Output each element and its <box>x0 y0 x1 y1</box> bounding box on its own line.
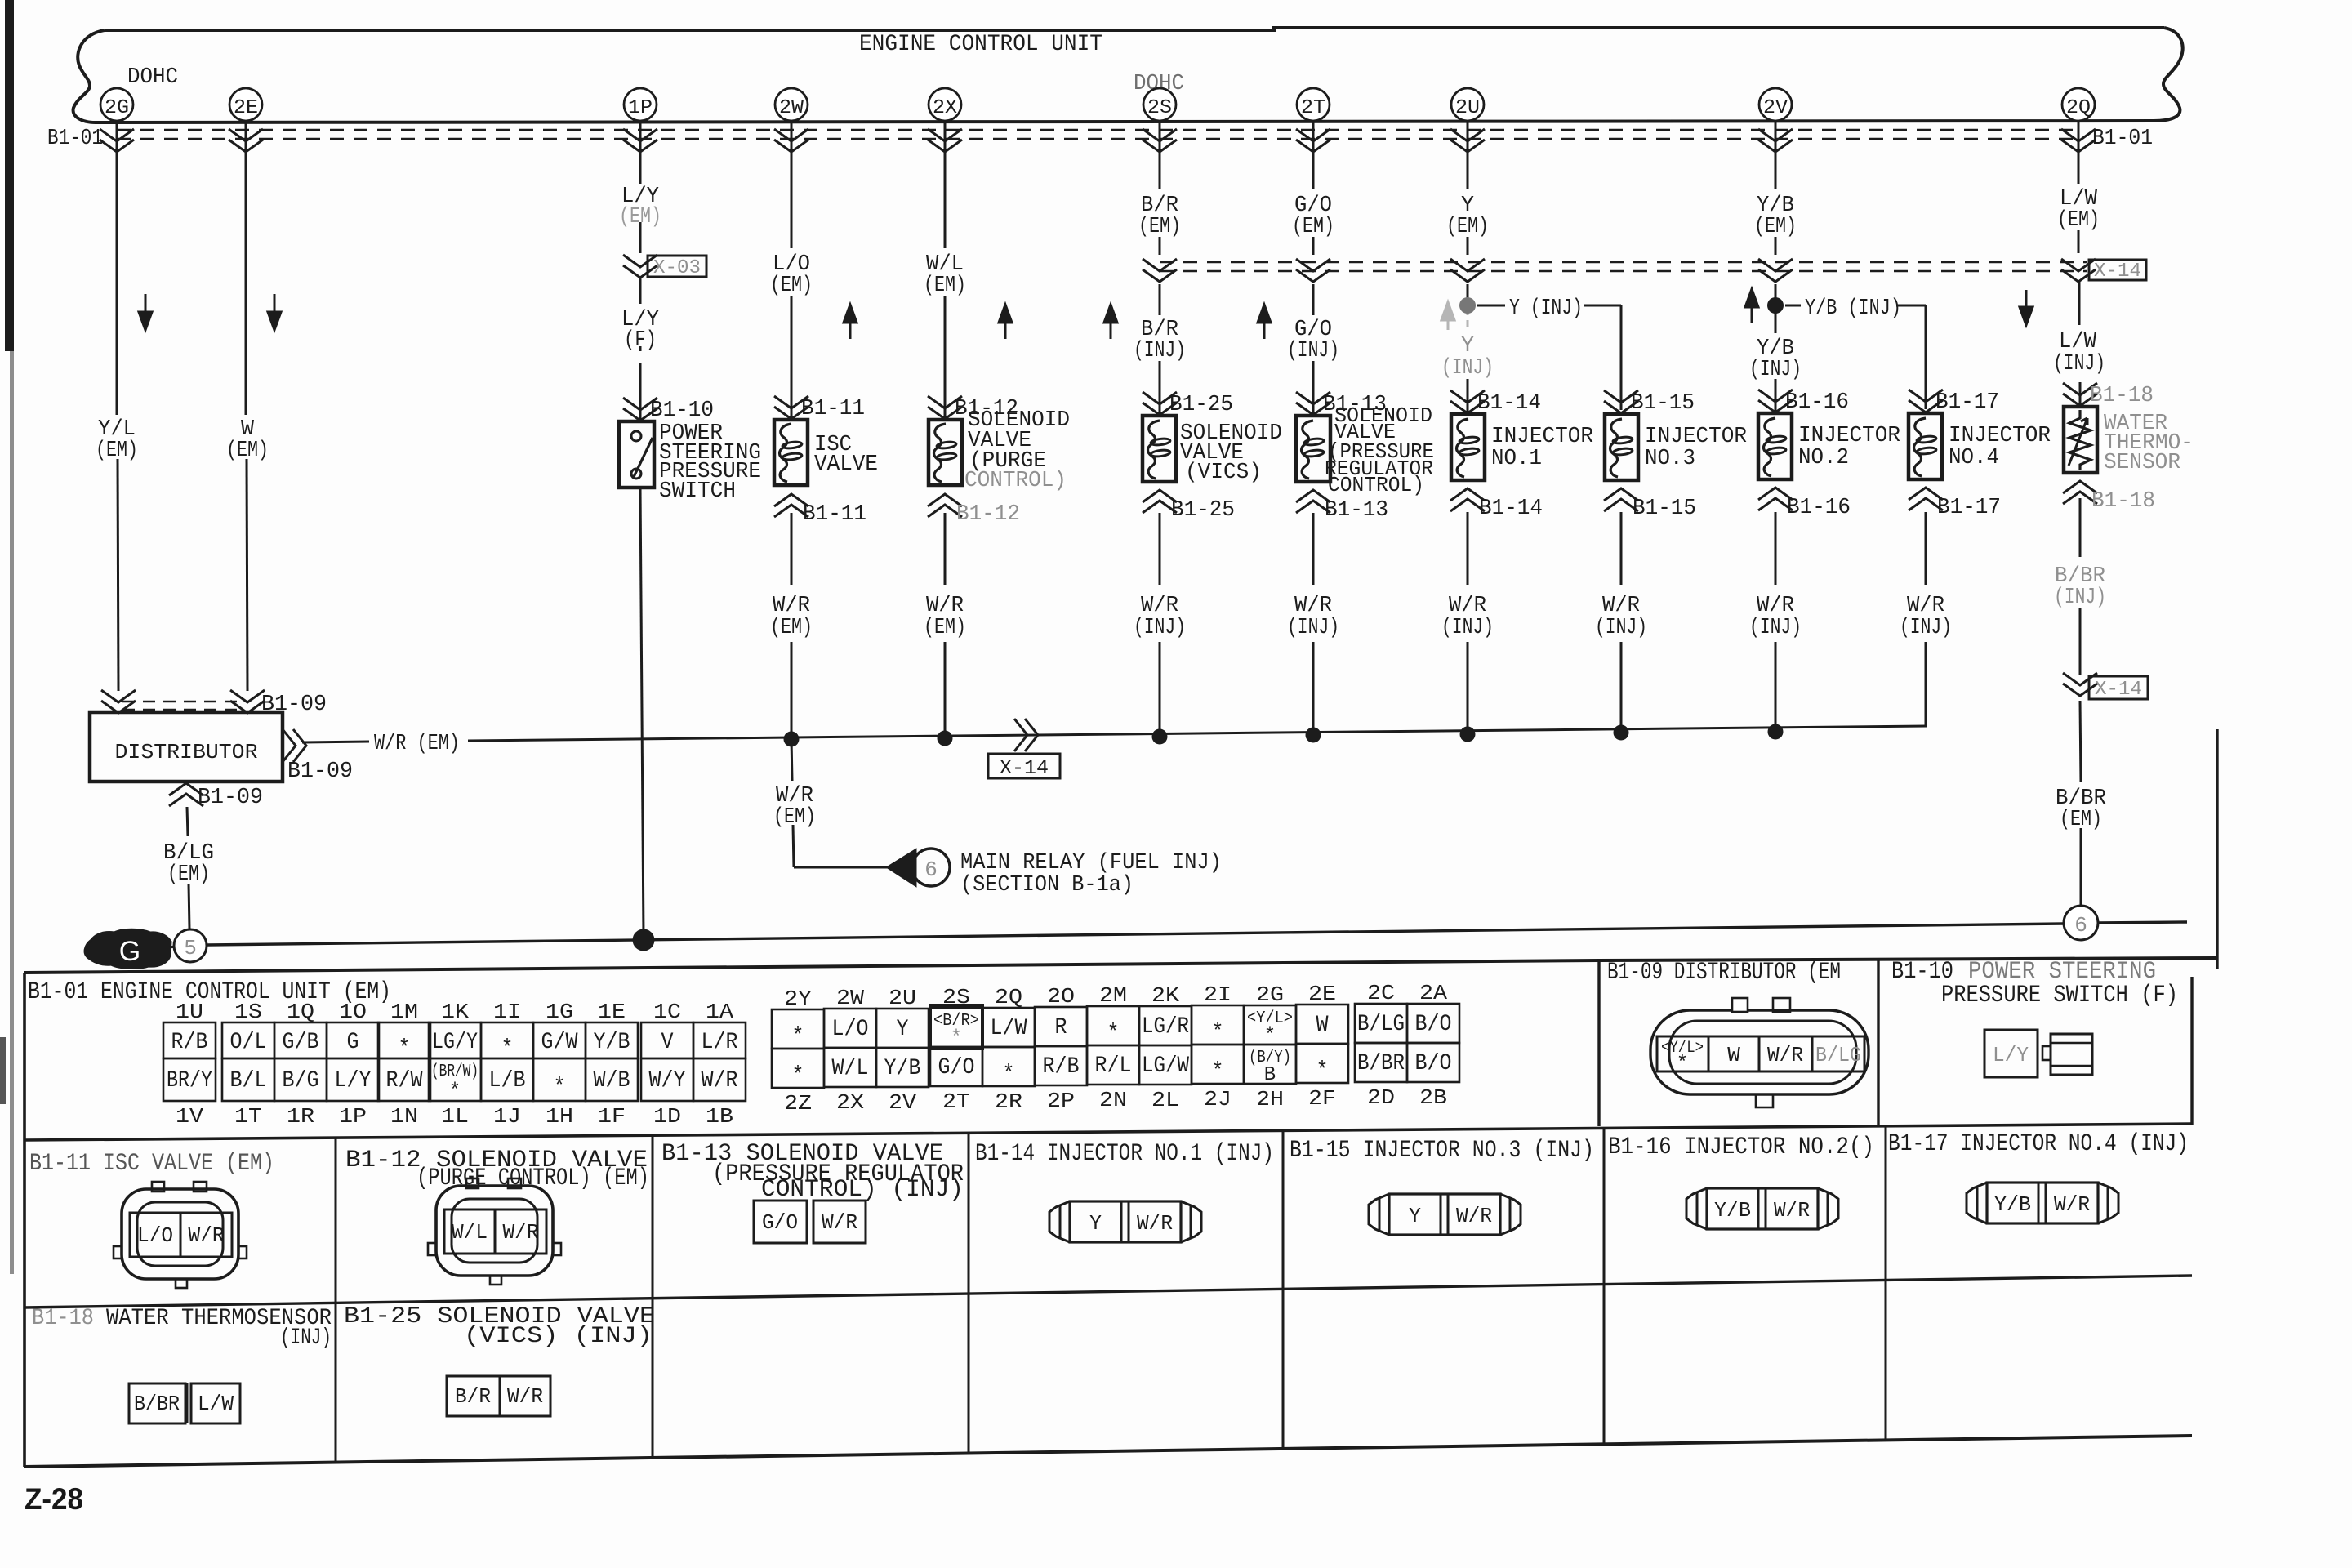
injector NO.1 B1-14 <box>1451 414 1485 480</box>
svg-text:R: R <box>1055 1015 1067 1040</box>
connector symbol B1-01 at 2V <box>1758 129 1793 152</box>
svg-text:W/R: W/R <box>702 1068 738 1094</box>
connector symbol X-14 bus at x=1797 <box>1450 259 1485 282</box>
table title B1-13 SOLENOID VALVE (PRESSURE REGULATOR CONTROL) (INJ) <box>661 1140 964 1204</box>
svg-text:W/R (EM): W/R (EM) <box>374 732 460 756</box>
svg-text:2X: 2X <box>836 1090 864 1115</box>
label L/W (INJ) <box>2053 330 2105 376</box>
connector label B1-13 bottom <box>1296 490 1388 523</box>
svg-text:(EM): (EM) <box>1138 215 1181 239</box>
svg-text:(EM): (EM) <box>226 439 269 463</box>
wire B/BR (EM) to node 6 <box>2080 701 2081 906</box>
svg-text:X-14: X-14 <box>1000 756 1049 780</box>
svg-text:B1-25: B1-25 <box>1171 498 1235 523</box>
svg-text:2Y: 2Y <box>784 987 812 1011</box>
svg-text:W/R: W/R <box>926 594 964 618</box>
svg-text:(INJ): (INJ) <box>1441 356 1494 381</box>
wire W/R (EM) to main relay <box>791 739 888 867</box>
svg-text:(INJ): (INJ) <box>1749 616 1802 640</box>
svg-text:W/R: W/R <box>503 1220 539 1245</box>
svg-text:W/R: W/R <box>1907 594 1944 618</box>
connector symbol X-14 bus at x=1608 <box>1296 259 1330 282</box>
connector label B1-16 bottom <box>1758 488 1851 520</box>
connector symbol B1-01 at 1P <box>623 129 657 152</box>
bus B1-09 dashed <box>101 690 265 713</box>
svg-text:B1-12: B1-12 <box>956 502 1020 527</box>
svg-text:Y/B: Y/B <box>884 1056 921 1081</box>
svg-text:B1-15: B1-15 <box>1633 497 1696 521</box>
svg-text:B1-14: B1-14 <box>1477 391 1541 416</box>
connector label B1-14 bottom <box>1450 488 1543 521</box>
svg-text:NO.2: NO.2 <box>1798 446 1849 470</box>
label B/BR (EM) <box>2056 786 2106 832</box>
wire 2G vertical <box>117 122 118 691</box>
svg-text:(INJ): (INJ) <box>1441 616 1494 640</box>
label W/R (INJ) x=1608 <box>1287 594 1339 640</box>
svg-text:(INJ): (INJ) <box>1900 616 1952 640</box>
svg-text:2E: 2E <box>234 97 258 119</box>
ECU pin circle 2W <box>775 88 808 121</box>
label INJECTOR NO.3 <box>1645 425 1747 471</box>
svg-text:*: * <box>1107 1021 1120 1046</box>
svg-text:B1-18: B1-18 <box>2090 384 2154 408</box>
connector symbol B1-01 at 2G <box>100 129 134 152</box>
svg-text:*: * <box>449 1080 461 1102</box>
wire 2U vertical <box>1467 122 1469 414</box>
svg-text:2E: 2E <box>1308 982 1336 1006</box>
ISC valve B1-11 <box>774 420 808 485</box>
svg-text:Z-28: Z-28 <box>24 1482 83 1516</box>
svg-text:W/R: W/R <box>1456 1204 1492 1228</box>
table title B1-18 WATER THERMOSENSOR (INJ) <box>32 1306 332 1351</box>
label ISC VALVE <box>814 433 878 477</box>
svg-text:2V: 2V <box>1763 97 1788 119</box>
injector NO.1 connector drawing <box>1049 1201 1201 1242</box>
connector symbol B1-01 at 2Q <box>2061 129 2096 152</box>
svg-text:(INJ): (INJ) <box>1287 616 1339 640</box>
svg-text:W/R: W/R <box>1141 594 1178 618</box>
svg-text:(INJ): (INJ) <box>280 1325 332 1351</box>
connector symbol X-14 bus at x=2545 <box>2061 259 2096 282</box>
node 2V branch Y/B (INJ) <box>1767 297 1784 314</box>
ECU pin circle 1P <box>624 88 657 121</box>
svg-text:G: G <box>119 936 140 967</box>
svg-text:B1-17: B1-17 <box>1935 390 1999 415</box>
svg-text:LG/W: LG/W <box>1142 1053 1189 1079</box>
svg-text:W: W <box>1316 1013 1329 1038</box>
svg-text:*: * <box>501 1036 514 1062</box>
wire ground to node 5 <box>170 947 175 947</box>
wire 2T vertical <box>1312 122 1315 416</box>
svg-text:B/O: B/O <box>1415 1012 1452 1037</box>
svg-text:W/R: W/R <box>1767 1043 1803 1067</box>
switch B1-10 power steering pressure switch <box>619 421 654 488</box>
ECU pin circle 2X <box>929 88 961 121</box>
ECU pin circle 2S <box>1143 88 1176 121</box>
svg-text:(VICS): (VICS) <box>1185 461 1262 485</box>
svg-text:W/R: W/R <box>1137 1211 1173 1236</box>
svg-text:2Q: 2Q <box>2066 97 2091 119</box>
svg-text:Y: Y <box>897 1017 909 1042</box>
connector label B1-12 bottom <box>928 494 1020 527</box>
wire B/BR (INJ) thermosensor <box>2079 498 2082 675</box>
svg-text:*: * <box>1212 1059 1224 1085</box>
svg-text:Y: Y <box>1461 334 1474 359</box>
svg-text:(F): (F) <box>624 328 657 353</box>
arrow up 2X <box>999 305 1012 339</box>
svg-text:(EM): (EM) <box>924 274 966 298</box>
svg-text:R/L: R/L <box>1095 1053 1132 1079</box>
svg-text:2S: 2S <box>1147 97 1172 119</box>
svg-text:(EM): (EM) <box>619 205 661 229</box>
table divider row2 x=1964 <box>1603 1128 1606 1285</box>
svg-text:SWITCH: SWITCH <box>659 479 736 504</box>
injector NO.4 B1-17 <box>1909 413 1942 479</box>
injector NO.3 B1-15 <box>1605 414 1638 480</box>
svg-text:W/B: W/B <box>594 1068 630 1094</box>
wire W/R (INJ) column x=1608 <box>1312 513 1315 735</box>
node circle 6 right <box>2064 906 2098 940</box>
connector symbol B1-01 at 2U <box>1450 129 1485 152</box>
wire B/LG (EM) <box>187 807 189 929</box>
svg-text:2H: 2H <box>1256 1087 1284 1111</box>
label INJECTOR NO.2 <box>1798 424 1900 470</box>
svg-text:1M: 1M <box>390 1000 418 1024</box>
connector symbol X-14 bus at x=1420 <box>1143 259 1177 282</box>
arrow up 2S <box>1104 305 1117 339</box>
svg-text:LG/R: LG/R <box>1142 1014 1189 1040</box>
svg-text:B1-15: B1-15 <box>1631 391 1695 416</box>
svg-text:W/R: W/R <box>507 1384 543 1409</box>
connector label B1-15 bottom <box>1604 488 1696 521</box>
connector label B1-17 top <box>1909 390 1999 415</box>
junction dot bus x=1608 <box>1306 728 1321 743</box>
svg-text:(EM): (EM) <box>924 616 966 640</box>
svg-text:1P: 1P <box>628 97 653 119</box>
svg-text:2N: 2N <box>1099 1088 1127 1112</box>
svg-text:(INJ): (INJ) <box>2053 352 2105 376</box>
wire 2Q vertical <box>2078 122 2080 407</box>
label Y (EM) <box>1446 194 1489 239</box>
svg-text:W/R: W/R <box>1602 594 1640 618</box>
svg-text:(SECTION B-1a): (SECTION B-1a) <box>960 873 1134 898</box>
ISC valve connector drawing <box>114 1182 247 1288</box>
junction dot bus x=1157 <box>938 731 953 746</box>
svg-text:(INJ): (INJ) <box>1749 358 1802 382</box>
connector label B1-11 top <box>774 396 865 421</box>
wire bus W/R (EM) horizontal <box>302 726 1927 742</box>
arrow up 2T <box>1258 305 1271 339</box>
svg-text:L/O: L/O <box>832 1017 869 1042</box>
svg-text:1R: 1R <box>287 1104 314 1129</box>
pin grid B1-01 connector 2 <box>772 981 1459 1116</box>
svg-text:W: W <box>1727 1043 1740 1067</box>
svg-text:(EM): (EM) <box>167 862 210 887</box>
svg-text:1B: 1B <box>706 1104 733 1129</box>
label W/R (INJ) x=1420 <box>1134 594 1186 640</box>
table title B1-10 POWER STEERING PRESSURE SWITCH (F) <box>1891 958 2178 1009</box>
label Y/B (INJ) 2V <box>1749 336 1802 382</box>
svg-text:(EM): (EM) <box>773 805 816 830</box>
svg-text:5: 5 <box>184 936 197 960</box>
svg-text:1N: 1N <box>390 1104 418 1129</box>
svg-text:B: B <box>1264 1064 1276 1086</box>
svg-text:1D: 1D <box>653 1104 681 1129</box>
svg-text:2Q: 2Q <box>995 985 1022 1009</box>
connector X-03 on 1P wire <box>623 255 706 279</box>
svg-text:1J: 1J <box>493 1104 521 1129</box>
svg-text:CONTROL): CONTROL) <box>1328 473 1424 497</box>
svg-text:B1-16 INJECTOR NO.2(): B1-16 INJECTOR NO.2() <box>1608 1134 1874 1161</box>
svg-text:B/BR: B/BR <box>1357 1051 1405 1076</box>
svg-text:NO.1: NO.1 <box>1491 447 1542 471</box>
connector B1-09 bottom chevron <box>169 783 263 810</box>
connector label B1-25 bottom <box>1143 490 1235 523</box>
pressure switch connector drawing <box>1984 1030 2092 1077</box>
label SOLENOID VALVE (PRESSURE REGULATOR CONTROL) <box>1325 403 1434 497</box>
label B/R (INJ) <box>1134 318 1186 363</box>
svg-text:*: * <box>951 1027 962 1049</box>
svg-text:1H: 1H <box>546 1104 573 1129</box>
svg-text:W/Y: W/Y <box>649 1068 686 1094</box>
connector label B1-17 bottom <box>1909 488 2001 520</box>
svg-text:(INJ): (INJ) <box>1287 339 1339 363</box>
table title B1-12 SOLENOID VALVE (PURGE CONTROL) (EM) <box>345 1147 649 1192</box>
svg-text:1P: 1P <box>339 1104 367 1129</box>
label SOLENOID VALVE (VICS) <box>1180 421 1282 485</box>
svg-text:2J: 2J <box>1204 1087 1232 1111</box>
svg-text:L/Y: L/Y <box>335 1068 372 1094</box>
svg-text:2G: 2G <box>1256 982 1284 1007</box>
main relay arrow and node 6 <box>888 849 950 886</box>
connector symbol B1-01 at 2T <box>1296 129 1330 152</box>
svg-text:1A: 1A <box>706 1000 733 1024</box>
wire 2E vertical <box>246 122 247 691</box>
connector label B1-25 top <box>1143 392 1233 417</box>
svg-text:2O: 2O <box>1047 984 1075 1009</box>
svg-text:2P: 2P <box>1047 1089 1075 1113</box>
table divider row2 x=411 <box>335 1138 337 1303</box>
svg-text:2L: 2L <box>1151 1088 1179 1112</box>
wire W/R (EM) column x=969 <box>791 513 793 739</box>
svg-text:O/L: O/L <box>230 1030 267 1055</box>
svg-text:1T: 1T <box>234 1104 262 1129</box>
thermosensor connector cells <box>129 1383 240 1423</box>
injector NO.2 B1-16 <box>1758 413 1792 479</box>
connector symbol B1-01 at 2W <box>774 129 808 152</box>
wire 2V vertical <box>1775 122 1777 413</box>
arrow up 2W <box>844 305 857 339</box>
svg-text:L/R: L/R <box>702 1030 738 1055</box>
svg-text:B1-10: B1-10 <box>650 399 714 423</box>
svg-text:1C: 1C <box>653 1000 681 1024</box>
label W/R (EM) relay drop <box>773 784 816 830</box>
svg-text:2C: 2C <box>1367 981 1395 1005</box>
svg-text:(EM): (EM) <box>2060 808 2102 832</box>
label WATER THERMO-SENSOR <box>2104 412 2194 475</box>
scan artifact bar <box>5 0 14 351</box>
svg-text:G/O: G/O <box>938 1055 975 1080</box>
svg-text:*: * <box>792 1024 804 1049</box>
svg-text:*: * <box>1316 1058 1329 1084</box>
junction dot 1P ground <box>633 929 655 951</box>
junction dot bus x=1985 <box>1614 725 1629 741</box>
arrow up 2U ghost <box>1441 302 1454 330</box>
injector NO.4 connector drawing <box>1967 1183 2118 1223</box>
label L/W (EM) <box>2057 187 2100 233</box>
svg-text:1G: 1G <box>546 1000 573 1024</box>
svg-text:B1-09 DISTRIBUTOR (EM: B1-09 DISTRIBUTOR (EM <box>1607 959 1841 987</box>
svg-text:2T: 2T <box>1301 97 1325 119</box>
svg-text:X-14: X-14 <box>2095 679 2142 701</box>
svg-text:G: G <box>347 1030 359 1055</box>
svg-text:L/W: L/W <box>2059 330 2097 354</box>
connector label B1-14 top <box>1450 390 1541 416</box>
pressure regulator connector cells <box>754 1200 866 1243</box>
table right edge B1-10 <box>2190 977 2193 1125</box>
svg-text:(INJ): (INJ) <box>1134 616 1186 640</box>
svg-text:2U: 2U <box>889 986 916 1010</box>
junction dot bus x=1797 <box>1460 727 1476 742</box>
svg-text:INJECTOR: INJECTOR <box>1798 424 1900 448</box>
connector label B1-16 top <box>1758 390 1849 415</box>
svg-text:B1-11 ISC VALVE (EM): B1-11 ISC VALVE (EM) <box>29 1150 274 1178</box>
svg-text:L/Y: L/Y <box>1993 1043 2029 1067</box>
table divider row3 x=799 <box>652 1298 654 1458</box>
svg-text:B/O: B/O <box>1415 1051 1452 1076</box>
svg-text:B1-25: B1-25 <box>1169 393 1233 417</box>
svg-text:W/R: W/R <box>773 594 810 618</box>
arrow down 2Q <box>2020 290 2033 325</box>
svg-text:*: * <box>1003 1062 1015 1087</box>
connector symbol B1-01 at 2X <box>928 129 962 152</box>
svg-text:1Q: 1Q <box>287 1000 314 1024</box>
table divider row3 x=411 <box>335 1303 337 1463</box>
svg-text:2D: 2D <box>1367 1085 1395 1110</box>
svg-text:1K: 1K <box>441 1000 469 1024</box>
solenoid valve B1-12 purge control <box>929 420 962 485</box>
ECU pin circle 2V <box>1759 88 1792 121</box>
svg-text:2G: 2G <box>105 97 129 119</box>
svg-text:NO.4: NO.4 <box>1949 446 1999 470</box>
svg-text:2R: 2R <box>995 1089 1022 1114</box>
svg-text:B/L: B/L <box>230 1068 267 1094</box>
svg-text:(EM): (EM) <box>2057 208 2100 233</box>
connector symbol B1-01 at 2S <box>1143 129 1177 152</box>
table divider B1-09 left <box>1597 960 1600 1126</box>
injector NO.3 connector drawing <box>1369 1194 1521 1235</box>
svg-text:B1-18: B1-18 <box>2091 489 2155 514</box>
table divider row3 x=1964 <box>1603 1285 1606 1444</box>
svg-text:2W: 2W <box>779 97 804 119</box>
svg-text:1E: 1E <box>598 1000 626 1024</box>
node circle 5 <box>174 929 207 962</box>
svg-text:W/R: W/R <box>2054 1192 2090 1217</box>
label W/R (INJ) x=1985 <box>1595 594 1647 640</box>
node 2U branch Y (INJ) <box>1459 297 1476 314</box>
svg-text:W/R: W/R <box>1294 594 1332 618</box>
svg-text:R/W: R/W <box>386 1068 423 1094</box>
svg-text:*: * <box>554 1075 566 1100</box>
arrow down 2E <box>268 294 281 330</box>
svg-text:B1-09: B1-09 <box>287 759 353 784</box>
svg-text:B1-11: B1-11 <box>801 397 865 421</box>
svg-text:SENSOR: SENSOR <box>2104 451 2180 475</box>
svg-text:(VICS) (INJ): (VICS) (INJ) <box>464 1324 653 1349</box>
wire branch Y (INJ) to injector NO.3 <box>1477 305 1621 410</box>
svg-text:W/R: W/R <box>1774 1198 1810 1223</box>
table title B1-25 SOLENOID VALVE (VICS) (INJ) <box>344 1304 655 1349</box>
svg-text:W/R: W/R <box>189 1223 225 1248</box>
connector X-14 on W/R bus <box>988 719 1060 780</box>
ECU banner outline <box>73 28 2183 122</box>
svg-text:6: 6 <box>924 857 938 882</box>
svg-text:L/W: L/W <box>198 1392 234 1416</box>
svg-text:G/O: G/O <box>762 1210 798 1235</box>
svg-text:2M: 2M <box>1099 983 1127 1008</box>
table divider row3 x=1186 <box>968 1294 970 1453</box>
distributor B1-09 box <box>90 712 283 782</box>
label SOLENOID VALVE (PURGE CONTROL) <box>964 408 1070 493</box>
ECU pin circle 2E <box>229 88 262 121</box>
ECU pin circle 2U <box>1451 88 1484 121</box>
connector label B1-18 top <box>2063 383 2154 408</box>
svg-text:W/R: W/R <box>1757 594 1794 618</box>
svg-text:X-03: X-03 <box>653 257 701 279</box>
label W/R (EM) x=1157 <box>924 594 966 640</box>
junction dot bus x=2174 <box>1768 724 1784 740</box>
svg-text:*: * <box>792 1063 804 1089</box>
svg-text:(EM): (EM) <box>1754 215 1797 239</box>
svg-text:B1-14 INJECTOR NO.1 (INJ): B1-14 INJECTOR NO.1 (INJ) <box>975 1140 1274 1168</box>
svg-text:1O: 1O <box>339 1000 367 1024</box>
svg-text:VALVE: VALVE <box>814 452 878 477</box>
svg-text:2W: 2W <box>836 986 864 1010</box>
label W/R (INJ) x=1797 <box>1441 594 1494 640</box>
svg-text:Y/B: Y/B <box>594 1030 630 1055</box>
label INJECTOR NO.4 <box>1949 424 2051 470</box>
label Y/L (EM) <box>96 417 138 463</box>
label G/O (EM) <box>1292 194 1334 239</box>
label W (EM) <box>226 417 269 463</box>
label L/O (EM) <box>770 252 813 298</box>
svg-text:Y/B: Y/B <box>1714 1198 1751 1223</box>
svg-text:1I: 1I <box>493 1000 521 1024</box>
svg-text:(BR/W): (BR/W) <box>431 1062 479 1081</box>
connector B1-09 right chevron <box>283 729 353 784</box>
svg-text:B/LG: B/LG <box>1357 1012 1405 1037</box>
svg-text:B/LG: B/LG <box>1815 1043 1861 1067</box>
svg-text:2T: 2T <box>942 1089 970 1114</box>
label W/L (EM) <box>924 252 966 298</box>
svg-text:G/W: G/W <box>541 1030 578 1055</box>
wire 2X vertical <box>944 122 947 420</box>
svg-text:INJECTOR: INJECTOR <box>1645 425 1747 449</box>
table divider row3 x=1571 <box>1282 1289 1285 1449</box>
svg-text:Y: Y <box>1089 1211 1102 1236</box>
svg-text:B1-11: B1-11 <box>803 502 866 527</box>
label B/BR (INJ) <box>2054 564 2106 610</box>
svg-text:B1-01: B1-01 <box>47 127 103 151</box>
svg-text:LG/Y: LG/Y <box>432 1030 478 1055</box>
svg-text:W/L: W/L <box>832 1056 869 1081</box>
svg-text:W/L: W/L <box>452 1220 488 1245</box>
svg-text:ENGINE CONTROL UNIT: ENGINE CONTROL UNIT <box>859 32 1102 57</box>
svg-text:CONTROL): CONTROL) <box>964 469 1067 493</box>
svg-text:B1-16: B1-16 <box>1787 496 1851 520</box>
label MAIN RELAY (FUEL INJ) (SECTION B-1a) <box>960 851 1222 898</box>
junction dot bus x=969 <box>784 732 800 747</box>
